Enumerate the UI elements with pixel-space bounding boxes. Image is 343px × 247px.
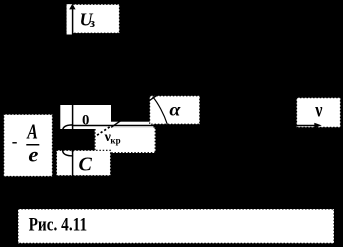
label box nu (x-axis label) (297, 98, 341, 128)
label box nu_kr (95, 128, 156, 153)
angle arc (153, 97, 168, 125)
label box alpha (150, 96, 200, 124)
y-axis white strip (67, 4, 73, 34)
solid graph line (111, 94, 158, 127)
svg-text:кр: кр (110, 135, 120, 145)
svg-text:з: з (90, 15, 95, 30)
caption box (18, 209, 334, 243)
x-axis line (72, 125, 315, 127)
svg-text:С: С (79, 154, 93, 176)
svg-text:0: 0 (82, 113, 89, 129)
svg-text:A: A (26, 120, 38, 144)
svg-text:α: α (169, 100, 181, 120)
svg-text:-: - (12, 132, 18, 151)
y-axis arrowhead (69, 4, 75, 10)
brace parenthesis (segment 0-C) (62, 125, 72, 156)
svg-text:Рис. 4.11: Рис. 4.11 (29, 215, 88, 236)
label box -A/e (4, 114, 53, 176)
svg-text:ν: ν (314, 98, 322, 122)
origin box 0 (60, 105, 111, 129)
dotted extrapolation line to C (72, 127, 110, 152)
label box U3 (y-axis label) (67, 4, 120, 33)
label box C (57, 150, 111, 175)
axis band (111, 122, 153, 128)
svg-text:e: e (28, 142, 38, 166)
x-axis arrowhead (314, 123, 321, 128)
y-axis line (72, 9, 74, 177)
